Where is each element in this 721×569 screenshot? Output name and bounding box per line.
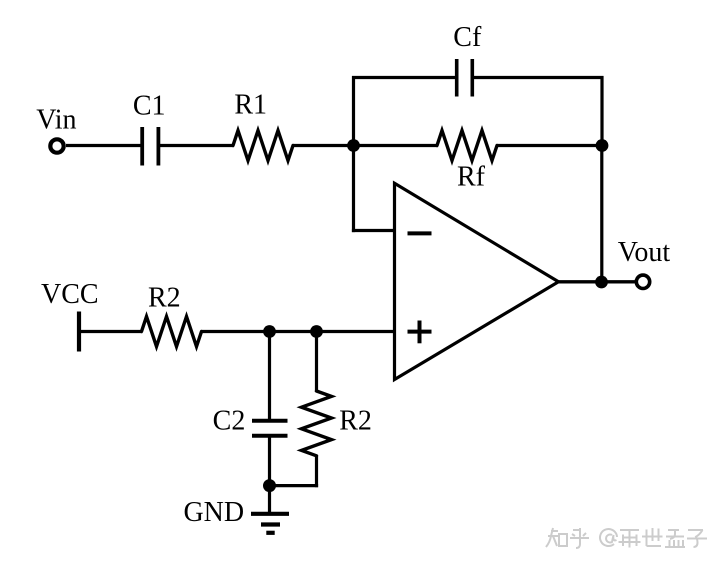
wire Rf to node B: [497, 144, 602, 147]
wire op-amp output to Vout: [557, 280, 636, 283]
watermark zhihu: [546, 528, 707, 548]
wire R2 vertical down: [315, 456, 318, 487]
terminal Vin: [50, 139, 63, 152]
svg-text:R2: R2: [339, 406, 372, 437]
ground node junction: [263, 479, 276, 492]
wire VCC to R2: [79, 330, 143, 333]
resistor R2 vertical: [302, 391, 332, 456]
svg-text:GND: GND: [183, 497, 244, 528]
node B junction: [596, 139, 609, 152]
svg-text:Vin: Vin: [36, 105, 76, 136]
wire node D down to R2 vertical: [315, 332, 318, 393]
ground bar 3: [266, 531, 274, 535]
node D junction: [310, 325, 323, 338]
svg-text:C2: C2: [213, 406, 246, 437]
node A junction: [347, 139, 360, 152]
capacitor C1: [142, 127, 158, 166]
svg-text:R1: R1: [234, 90, 267, 121]
svg-text:R2: R2: [148, 282, 181, 313]
wire R2 to noninverting input: [202, 330, 395, 333]
wire node A to Rf: [354, 144, 439, 147]
svg-text:Vout: Vout: [618, 237, 671, 268]
svg-text:Cf: Cf: [453, 22, 482, 53]
op-amp minus sign: [408, 231, 432, 235]
terminal Vout: [636, 275, 649, 288]
wire node A up to top rail: [352, 76, 355, 147]
wire R2 bottom to ground node: [270, 484, 319, 487]
wire top rail right segment: [473, 76, 604, 79]
wire top rail left segment: [352, 76, 457, 79]
node C junction: [263, 325, 276, 338]
capacitor C2: [252, 421, 288, 436]
wire node B down to output node: [600, 146, 603, 283]
wire node A down to inverting input: [352, 146, 355, 233]
ground stem: [268, 486, 271, 514]
output node junction: [595, 276, 608, 289]
capacitor Cf: [457, 59, 473, 97]
op-amp plus sign: [408, 321, 432, 344]
resistor Rf: [437, 131, 497, 161]
resistor R2 horizontal: [142, 317, 202, 347]
svg-text:VCC: VCC: [41, 279, 99, 310]
op-amp U1: [395, 183, 559, 379]
svg-text:Rf: Rf: [457, 162, 486, 193]
wire Vin to C1: [66, 144, 141, 147]
wire R1 to node A: [293, 144, 354, 147]
wire node C down to C2: [268, 332, 271, 420]
wire C1 to R1: [160, 144, 234, 147]
wire C2 to ground node: [268, 437, 271, 486]
ground bar 1: [251, 512, 289, 516]
wire to inverting input: [352, 229, 395, 232]
ground bar 2: [261, 522, 280, 526]
terminal VCC bar: [77, 312, 81, 352]
wire right rail down to node B: [600, 76, 603, 146]
svg-text:C1: C1: [133, 90, 166, 121]
resistor R1: [233, 131, 293, 161]
